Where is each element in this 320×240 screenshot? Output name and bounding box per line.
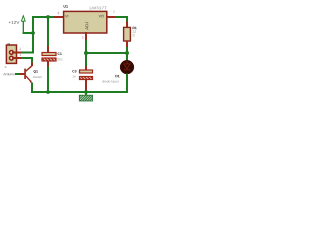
node junction at ADJ bbox=[84, 51, 88, 55]
C3 reference label bbox=[72, 70, 76, 72]
VO pin name bbox=[99, 15, 104, 18]
U1 reference label bbox=[64, 5, 68, 8]
wire R1 to ADJ node bbox=[126, 47, 128, 54]
C1 value 22u bbox=[57, 58, 62, 60]
J1 reference label bbox=[7, 43, 10, 45]
wire from +12V arrow to rail bbox=[23, 32, 34, 34]
wire VO to R1 bbox=[115, 17, 127, 22]
R1 value 22 bbox=[133, 30, 136, 32]
connector J1 body bbox=[6, 45, 16, 63]
node junction C1 tap bbox=[46, 15, 50, 19]
resistor R1 body bbox=[124, 27, 131, 41]
node junction at +12V tap bbox=[31, 31, 35, 35]
wire ADJ down bbox=[85, 40, 87, 67]
wire J1 pin1 toward Q1 collector bbox=[21, 58, 32, 63]
wire J1 pin2 to +12V rail bbox=[21, 51, 34, 53]
pin 2 lead out of U1 VO bbox=[107, 16, 116, 18]
R1 top lead bbox=[126, 22, 128, 29]
J1 pin number 2 bbox=[20, 48, 21, 50]
R1 bottom lead bbox=[126, 41, 128, 48]
LM317T part label bbox=[90, 7, 107, 10]
pin 1 lead from U1 ADJ bbox=[85, 32, 87, 41]
C3 value 1u bbox=[73, 75, 76, 77]
R1 unit ohm bbox=[133, 34, 135, 36]
capacitor C3 bottom plate (polarized hatch) bbox=[80, 77, 93, 80]
wire D1 anode bbox=[126, 53, 128, 61]
pin number 1 bbox=[82, 36, 83, 38]
wire C1 branch down bbox=[47, 16, 49, 47]
J1 pin 1 circle bbox=[10, 56, 14, 60]
D1 reference label bbox=[116, 75, 120, 77]
VI pin name bbox=[65, 15, 68, 18]
wire top horizontal to U1 VI bbox=[32, 16, 55, 18]
+12V supply arrow bbox=[21, 16, 25, 33]
Q1 collector lead bbox=[31, 63, 33, 67]
pin 3 lead into U1 bbox=[54, 16, 64, 18]
node junction at R1/D1 bbox=[125, 51, 129, 55]
pin number 3 bbox=[58, 12, 60, 14]
ground stem bbox=[85, 92, 87, 96]
Q1 base lead bbox=[20, 73, 25, 75]
ADJ pin name (rotated) bbox=[85, 22, 88, 30]
C1 reference label bbox=[58, 53, 62, 55]
Q1 part 2N2222 bbox=[33, 76, 42, 78]
D1 part name diode laser bbox=[102, 80, 119, 82]
op-amp U1 LM317T regulator body bbox=[64, 11, 107, 33]
wire C1 to ground bus bbox=[47, 67, 49, 94]
diode laser D1 bbox=[120, 60, 134, 74]
wire vertical +12V rail bbox=[32, 16, 34, 54]
wire to Q1 base bbox=[15, 73, 20, 75]
C1 bottom lead bbox=[47, 61, 49, 67]
C3 top lead bbox=[85, 66, 87, 71]
wire ground bus bbox=[32, 91, 129, 93]
J1 footer artifact bbox=[5, 66, 6, 68]
Q1 reference label bbox=[34, 70, 38, 73]
wire D1 cathode to ground bus bbox=[126, 74, 128, 94]
J1 pin 1 lead bbox=[12, 57, 22, 59]
node junction C1/ground bus bbox=[46, 90, 50, 94]
C1 top lead bbox=[47, 46, 49, 53]
wire ADJ node horizontal bbox=[85, 52, 128, 54]
+12V label bbox=[9, 21, 20, 24]
J1 pin number 1 bbox=[20, 54, 21, 56]
transistor Q1 2N2222 bbox=[24, 66, 32, 83]
J1 pin 2 lead bbox=[12, 51, 22, 53]
J1 pin 2 circle bbox=[10, 51, 14, 55]
R1 reference label bbox=[133, 27, 137, 29]
capacitor C1 top plate bbox=[42, 53, 56, 56]
pin number 2 bbox=[113, 11, 115, 13]
ground symbol bbox=[79, 95, 92, 101]
net label Arduino bbox=[3, 73, 14, 75]
wire Q1 emitter to ground bus bbox=[31, 83, 33, 94]
node junction C3/ground bus bbox=[84, 90, 88, 94]
C3 bottom lead bbox=[85, 80, 87, 93]
capacitor C3 top plate bbox=[80, 70, 93, 73]
capacitor C1 bottom plate (polarized hatch) bbox=[42, 58, 56, 61]
